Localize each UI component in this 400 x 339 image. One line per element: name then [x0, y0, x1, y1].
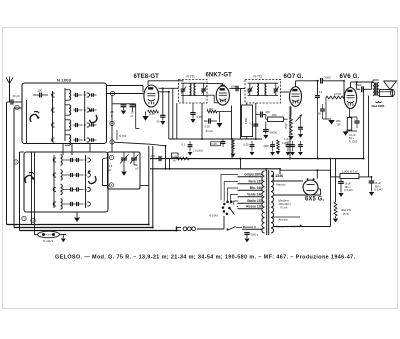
svg-text:30 pF: 30 pF: [13, 94, 20, 98]
wire: [234, 201, 238, 205]
node 8: [109, 183, 113, 187]
wire: [60, 234, 67, 236]
wire: [289, 106, 291, 159]
wire: [273, 216, 300, 218]
IF transformer T1 box: [179, 80, 208, 104]
wire: [114, 142, 165, 146]
wire: [7, 224, 149, 226]
svg-text:15 %: 15 %: [343, 212, 350, 216]
capacitor C-ant: [10, 99, 12, 104]
tube V2 6NK7-GT: [216, 86, 229, 105]
svg-text:10 µF: 10 µF: [349, 133, 356, 137]
wire: [357, 81, 374, 83]
IF2 trimmer arrow: [248, 87, 253, 94]
tube V4 6V6-G: [344, 88, 356, 109]
svg-text:Grigio 280V: Grigio 280V: [244, 173, 263, 177]
svg-text:70 mA: 70 mA: [280, 205, 288, 209]
svg-text:25Ω: 25Ω: [272, 114, 277, 117]
speaker coil body: [380, 90, 393, 97]
svg-text:1W: 1W: [337, 123, 341, 127]
capacitor 16uF 450v: [340, 179, 342, 182]
svg-text:5000: 5000: [324, 76, 331, 80]
wire: [335, 159, 337, 202]
svg-text:50000: 50000: [270, 131, 278, 135]
wire: [265, 169, 267, 171]
wire: [162, 88, 164, 114]
ground: [290, 152, 295, 156]
svg-text:N 711: N 711: [187, 75, 195, 79]
ground: [231, 154, 236, 158]
voltage selector N1043: [226, 213, 229, 216]
IF2 tuning cap 1: [249, 83, 251, 88]
wire: [331, 176, 341, 178]
wire: [280, 169, 331, 171]
switch contact lower row 2b: [88, 173, 91, 177]
wire: [103, 159, 110, 186]
wire: [172, 88, 174, 139]
svg-text:0,05: 0,05: [205, 125, 211, 129]
svg-text:6O7 G.: 6O7 G.: [284, 74, 304, 80]
IF transformer T2 box: [245, 80, 281, 104]
wire: [255, 103, 257, 139]
junction: [231, 138, 233, 140]
trimmer capacitor U4: [91, 138, 93, 141]
wire: [53, 155, 55, 208]
wire: [20, 151, 25, 153]
switch contact lower row 4: [53, 202, 56, 206]
IF1 primary coil: [190, 84, 191, 96]
wire: [359, 176, 372, 178]
IF1 secondary coil: [194, 84, 195, 96]
wire: [317, 81, 319, 95]
antenna: [6, 78, 13, 84]
band switch wiper S1a: [30, 114, 37, 122]
oscillator coil L5: [61, 155, 63, 165]
resistor hang: [277, 140, 280, 150]
junction: [255, 138, 257, 140]
resistor 250k: [268, 117, 284, 122]
power transformer T4 core: [266, 170, 268, 235]
svg-text:K: K: [111, 155, 113, 159]
ground: [244, 239, 249, 243]
ground: [160, 121, 165, 125]
wire: [316, 170, 318, 178]
antenna coil L2: [69, 105, 71, 115]
svg-text:Nero 220: Nero 220: [249, 180, 263, 184]
antenna coil L4: [69, 135, 71, 145]
wire: [168, 92, 170, 139]
svg-text:µF: µF: [131, 115, 134, 118]
wire: [107, 85, 144, 87]
capacitor 250pF: [260, 112, 262, 118]
svg-text:Rad-8W3: Rad-8W3: [372, 104, 385, 108]
svg-text:N. 101/3: N. 101/3: [43, 239, 53, 243]
svg-text:100: 100: [38, 89, 43, 93]
ground: [298, 152, 303, 156]
wire B+ rail: [368, 96, 370, 177]
bypass capacitor at 292.5: [292, 141, 294, 144]
ground: [219, 112, 221, 123]
wire: [148, 146, 150, 225]
svg-text:0,05: 0,05: [197, 115, 203, 119]
switch contact lower row 3b: [88, 187, 91, 191]
switch contact upper row 3b: [87, 123, 90, 127]
junction: [265, 168, 267, 170]
wire: [107, 93, 144, 95]
wire arrow: [300, 225, 303, 228]
IF2 inner rail top: [248, 82, 279, 84]
switch contact lower row 4b: [88, 202, 91, 206]
resistor 50: [148, 110, 159, 113]
oscillator coil box: [24, 152, 108, 212]
resistor 0,1 1W: [172, 153, 179, 158]
padding capacitor row 4a: [70, 202, 72, 206]
switch contact upper row 1b: [87, 93, 90, 97]
svg-text:N 703: N 703: [119, 134, 127, 138]
wire: [64, 88, 66, 141]
switch contact lower row 1: [53, 158, 56, 162]
output transformer T3 core: [374, 83, 376, 96]
svg-text:6NK7-GT: 6NK7-GT: [206, 73, 233, 79]
wire: [14, 107, 22, 109]
power switch: [228, 227, 236, 231]
svg-text:µF: µF: [136, 168, 139, 171]
padder capacitor: [132, 103, 134, 106]
ground: [276, 151, 281, 155]
svg-text:1 MΩ: 1 MΩ: [282, 142, 288, 145]
ground: [61, 239, 66, 243]
padder capacitor: [123, 103, 125, 106]
wire: [224, 182, 238, 202]
wire: [103, 158, 109, 160]
wire: [201, 103, 203, 139]
capacitor 16uF 350v: [371, 177, 373, 181]
IF2 tuning cap 2: [275, 83, 277, 88]
IF1 trimmer arrow: [181, 87, 186, 94]
svg-text:50 v: 50 v: [349, 136, 355, 140]
junction: [363, 158, 365, 160]
node 7: [22, 216, 26, 220]
wire: [221, 175, 238, 201]
switch contact upper row 3: [52, 123, 55, 127]
ground: [145, 112, 147, 116]
capacitor 50000: [265, 122, 267, 130]
phono jack FONO: [38, 231, 60, 238]
wire: [356, 82, 358, 89]
ground: [335, 216, 337, 218]
antenna coil box: [22, 83, 107, 144]
IF2 inner rail bottom: [248, 95, 279, 97]
variable capacitor CV2: [133, 152, 135, 157]
switch contact upper row 2b: [87, 108, 90, 112]
node K: [109, 155, 113, 159]
band switch wiper S1b: [90, 115, 97, 123]
wire: [6, 102, 8, 225]
padding capacitor row 4b: [76, 202, 78, 206]
wire: [350, 82, 352, 87]
wire: [52, 91, 54, 141]
ground: [298, 134, 303, 138]
wire: [112, 103, 136, 105]
IF1 inner rail bottom: [181, 95, 206, 97]
wire: [176, 103, 178, 139]
tube V5 6X5-G: [303, 180, 318, 195]
capacitor 0,1b: [315, 95, 320, 97]
ground: [190, 119, 195, 123]
capacitor 5000d: [244, 232, 249, 234]
switch contact lower row 1b: [88, 158, 91, 162]
wire: [206, 82, 223, 84]
svg-text:2500: 2500: [285, 123, 288, 129]
IF1 inner rail top: [181, 82, 206, 84]
svg-text:Arancio: Arancio: [276, 182, 286, 186]
wire: [152, 146, 154, 228]
wire: [330, 159, 332, 227]
wire: [19, 152, 21, 231]
bypass capacitor at 288: [287, 141, 289, 144]
power transformer T4 primary: [262, 171, 265, 233]
antenna coil L3: [69, 120, 71, 130]
junction: [165, 145, 167, 147]
svg-text:N 1342: N 1342: [375, 189, 384, 192]
junction: [152, 227, 154, 229]
power transformer T4 secondary: [271, 171, 274, 233]
wire: [231, 139, 233, 159]
junction: [169, 168, 171, 170]
node 11: [110, 91, 114, 95]
wire: [279, 169, 281, 174]
bypass capacitor at 252: [251, 141, 253, 144]
node 3: [14, 160, 18, 164]
junction: [363, 88, 365, 90]
svg-text:230+230 V: 230+230 V: [279, 202, 292, 206]
wire: [89, 144, 91, 153]
switch contact lower row 2: [53, 173, 56, 177]
field coil mark: [376, 102, 382, 103]
svg-text:N 1043: N 1043: [209, 213, 218, 217]
wire: [240, 159, 242, 169]
wire: [281, 91, 290, 93]
resistor 30ohm: [334, 202, 337, 216]
wire: [159, 87, 179, 89]
ground: [286, 152, 291, 156]
switch contact upper row 4b: [87, 138, 90, 142]
svg-text:3,5: 3,5: [109, 164, 113, 168]
node 8b: [110, 121, 114, 125]
bypass capacitor at 190: [189, 141, 191, 144]
padding capacitor U2: [75, 108, 77, 112]
trimmer capacitor U1: [91, 93, 93, 96]
junction: [356, 81, 358, 83]
wire: [343, 81, 345, 98]
wire: [116, 130, 118, 140]
wire: [229, 88, 245, 90]
svg-text:4 µF: 4 µF: [284, 138, 289, 141]
ground: [121, 172, 127, 176]
padding capacitor row 2b: [76, 173, 78, 177]
junction: [371, 176, 373, 178]
IF2 primary coil: [257, 84, 258, 96]
wire: [169, 159, 171, 169]
wire: [197, 228, 224, 230]
svg-text:100: 100: [231, 85, 236, 89]
wire: [240, 89, 242, 140]
switch contact upper row 4: [52, 138, 55, 142]
wire: [135, 104, 137, 129]
wire: [13, 108, 15, 228]
wire: [111, 96, 113, 152]
junction: [165, 168, 167, 170]
wire: [26, 100, 28, 144]
wire: [330, 170, 332, 177]
wire: [147, 81, 149, 85]
svg-text:5000 µ: 5000 µ: [251, 233, 259, 236]
svg-text:0,1: 0,1: [182, 143, 186, 147]
node 2: [15, 105, 19, 109]
padding capacitor row 3b: [76, 187, 78, 191]
padding capacitor U1: [75, 93, 77, 97]
tube V1 6TE8-GT: [144, 85, 159, 107]
svg-text:FONO: FONO: [45, 235, 51, 237]
svg-text:220: 220: [151, 154, 156, 158]
ground: [263, 135, 268, 139]
svg-text:N 1003: N 1003: [57, 77, 72, 82]
svg-text:0,05: 0,05: [150, 112, 156, 116]
ground: [270, 152, 275, 156]
ground: [288, 136, 293, 140]
wire: [76, 212, 78, 217]
wire: [34, 228, 36, 235]
padding capacitor row 3a: [70, 187, 72, 191]
padding capacitor row 1b: [76, 158, 78, 162]
capacitor 10uF: [354, 120, 359, 122]
wire: [371, 83, 373, 90]
bypass capacitor at 300.5: [300, 141, 302, 144]
ground: [338, 193, 343, 197]
svg-text:Δ1 µF: Δ1 µF: [206, 129, 214, 133]
wire: [363, 92, 365, 159]
ground: [188, 152, 193, 156]
wire: [140, 185, 149, 187]
junction: [279, 168, 281, 170]
switch contact upper row 1: [52, 93, 55, 97]
ground: [121, 111, 126, 115]
wire: [182, 96, 184, 103]
output transformer T3 primary: [373, 83, 375, 96]
wire: [256, 114, 260, 116]
wire rail A: [150, 158, 364, 160]
junction: [201, 138, 203, 140]
resistor cathode 6O7: [290, 107, 292, 118]
padding capacitor U3: [75, 123, 77, 127]
wire: [237, 205, 238, 208]
wire: [85, 155, 87, 208]
wire: [165, 146, 167, 169]
svg-text:GELOSO. — Mod. G. 75 R. – 13,9: GELOSO. — Mod. G. 75 R. – 13,9-21 m; 21-…: [55, 254, 356, 260]
wire: [148, 80, 184, 82]
ground: [250, 152, 255, 156]
svg-text:0,05: 0,05: [212, 142, 218, 146]
svg-text:1.000 Ω 1W: 1.000 Ω 1W: [342, 169, 358, 173]
wire: [84, 91, 86, 141]
junction: [317, 158, 319, 160]
junction: [330, 158, 332, 160]
svg-text:6TE8-GT: 6TE8-GT: [134, 74, 160, 80]
speaker cone: [384, 81, 397, 90]
output transformer T3 secondary: [377, 83, 379, 96]
svg-text:µF: µF: [109, 168, 113, 172]
capacitor: [204, 120, 208, 122]
capacitor avc: [222, 139, 224, 141]
svg-text:Arancio: Arancio: [279, 217, 289, 221]
wire: [14, 227, 153, 229]
capacitor 50b: [320, 108, 325, 110]
wire: [9, 84, 11, 103]
IF1 tuning cap 2: [203, 83, 205, 88]
padding capacitor U4: [75, 138, 77, 142]
tube V3 6O7-G: [290, 87, 302, 107]
bypass capacitor at 272.5: [272, 141, 274, 144]
wire: [31, 152, 33, 225]
svg-text:Verde 140: Verde 140: [247, 193, 262, 197]
junction: [317, 80, 319, 82]
ground: [74, 218, 80, 223]
padding capacitor row 2a: [70, 173, 72, 177]
wire: [295, 81, 297, 87]
resistor 1000 ohm: [340, 174, 359, 179]
wire: [62, 144, 64, 156]
capacitor vol: [158, 156, 160, 161]
ground: [369, 192, 374, 196]
ground: [349, 130, 351, 131]
oscillator coil L6: [61, 170, 63, 180]
svg-text:3,5: 3,5: [110, 110, 114, 114]
node 10: [31, 218, 35, 222]
switch contact lower row 3: [53, 188, 56, 192]
wire: [20, 230, 177, 232]
svg-text:250: 250: [266, 110, 271, 114]
wire: [71, 144, 73, 156]
wire: [273, 180, 303, 182]
svg-text:1 MΩ: 1 MΩ: [244, 118, 248, 125]
wire: [325, 98, 327, 120]
wire: [372, 80, 374, 83]
wire: [34, 152, 36, 228]
capacitor 50: [160, 114, 165, 116]
trimmer capacitor U3: [91, 123, 93, 126]
svg-text:2500: 2500: [264, 145, 270, 148]
svg-text:Giallo 125: Giallo 125: [247, 199, 262, 203]
svg-text:6X5 G.: 6X5 G.: [305, 196, 325, 202]
resistor 250 1W: [347, 118, 351, 131]
svg-text:N 771: N 771: [254, 75, 263, 79]
capacitor 0,05: [192, 103, 194, 112]
wire: [273, 194, 321, 196]
svg-text:0,1: 0,1: [250, 122, 254, 126]
resistor 1M box: [242, 105, 253, 137]
resistor avc: [232, 139, 235, 149]
svg-text:1 01,50Ω: 1 01,50Ω: [193, 150, 203, 153]
junction: [148, 224, 150, 226]
trimmer capacitor U2: [91, 108, 93, 111]
svg-text:0,1: 0,1: [319, 90, 323, 94]
ground: [323, 118, 332, 120]
tuning gang box: [108, 152, 141, 189]
junction: [168, 91, 170, 93]
IF1 tuning cap 1: [182, 83, 184, 88]
svg-text:0,5 M: 0,5 M: [334, 92, 341, 96]
junction: [240, 158, 242, 160]
